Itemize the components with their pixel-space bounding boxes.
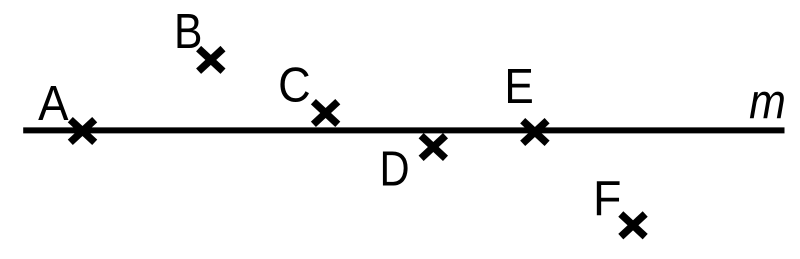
svg-text:D: D (380, 141, 410, 196)
line m (23, 127, 784, 133)
svg-text:B: B (174, 3, 202, 58)
point B cross (199, 49, 223, 72)
svg-text:E: E (504, 59, 533, 114)
point E cross (523, 121, 547, 144)
point C cross (313, 102, 337, 125)
point A cross (70, 120, 94, 143)
svg-text:A: A (38, 77, 69, 132)
point F cross (621, 214, 645, 237)
point D cross (421, 136, 445, 159)
svg-text:m: m (749, 74, 786, 129)
svg-text:F: F (593, 172, 621, 226)
svg-text:C: C (278, 57, 311, 112)
